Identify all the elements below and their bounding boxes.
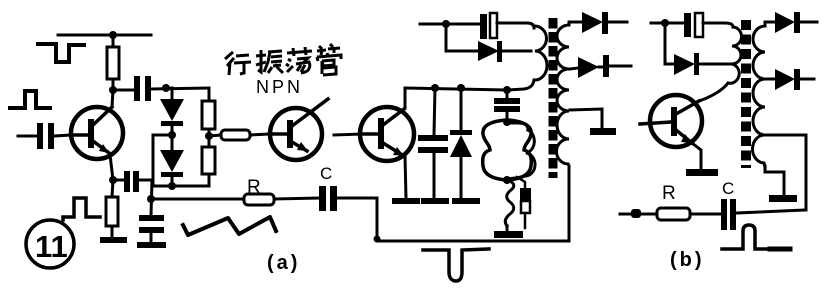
wire B+ to C8 — [446, 23, 480, 26]
diode D8 — [775, 12, 817, 33]
svg-text:(b): (b) — [670, 249, 705, 271]
transformer T2 core — [741, 20, 751, 168]
capacitor C8 (boost) — [480, 13, 497, 39]
ground T1 tap — [590, 128, 616, 135]
waveform negative retrace pulse — [423, 249, 489, 281]
transformer T1 core — [549, 18, 558, 178]
inductor L2 (linearity coil) — [505, 180, 513, 226]
resistor R1 — [107, 47, 119, 79]
wire R3 bottom lead — [208, 174, 211, 186]
svg-text:C: C — [320, 164, 332, 183]
wire T2 secondary top to D8 — [765, 22, 775, 24]
transistor Q1 — [71, 107, 123, 159]
node B+ junction — [442, 20, 450, 28]
wire (b) R input — [620, 213, 657, 216]
wire Q3 emitter to ground — [405, 156, 406, 198]
diode D3 (damper) — [450, 130, 472, 198]
char 荡 — [286, 47, 312, 73]
wire D4 to primary tap — [502, 50, 531, 53]
char 管 — [317, 44, 341, 75]
transistor Q3 (horizontal output) — [360, 107, 414, 161]
wire Q3 base lead — [334, 134, 361, 135]
diode D2 — [160, 135, 184, 186]
wire emitter resistor lead — [112, 180, 113, 197]
wire D4 branch — [446, 24, 478, 51]
wire R2 top lead — [208, 88, 211, 101]
deflection yoke L1 — [483, 120, 532, 180]
wire yoke top to lower primary — [507, 123, 528, 130]
diode D7 — [674, 53, 732, 75]
wire collector rail — [405, 80, 534, 90]
wire (b) input stub — [651, 22, 665, 25]
wire sync line vertical — [151, 180, 152, 216]
node R6 line junction — [147, 195, 155, 203]
wire junction to R6 — [151, 198, 244, 201]
capacitor C3 (emitter coupling) — [113, 171, 152, 192]
svg-text:C: C — [722, 179, 734, 198]
wire T1 tap to ground — [570, 109, 602, 128]
label 行振荡管 (drawn as strokes) — [225, 44, 341, 75]
node junction top rail / R1 — [109, 31, 117, 39]
node damper cap junction — [431, 84, 439, 92]
node between D1 and D2 — [168, 131, 176, 139]
ground D3 — [452, 198, 480, 204]
node yoke bottom — [503, 176, 511, 184]
svg-text:R: R — [662, 183, 676, 204]
wire divider tap to R4 — [209, 135, 221, 136]
wire (b) junction to C9 — [665, 22, 684, 25]
wire D3 top lead — [460, 88, 463, 130]
resistor R3 — [202, 147, 215, 174]
transistor Q2 (horizontal oscillator) — [270, 99, 328, 160]
svg-text:(a): (a) — [267, 252, 300, 274]
svg-text:NPN: NPN — [256, 77, 303, 97]
waveform positive pulse at emitter — [63, 198, 100, 220]
wire Q1 collector up — [112, 90, 113, 107]
wire T2 tap to output corner — [766, 135, 806, 208]
wire T2 secondary bottom to ground — [765, 166, 784, 195]
transformer T1 secondary — [556, 25, 569, 164]
transformer T2 secondary — [752, 26, 765, 167]
node diode network bottom — [168, 182, 176, 190]
wire C6 top lead — [434, 88, 435, 135]
char 振 — [256, 50, 283, 73]
wire C6 bottom lead — [433, 153, 436, 198]
resistor R6 — [244, 194, 274, 205]
wire T1 secondary top to D5 — [569, 22, 582, 24]
node damper diode junction — [457, 84, 465, 92]
transformer T2 primary — [699, 27, 742, 101]
diode D5 (EHT top) — [582, 12, 627, 34]
ground T2 secondary — [769, 195, 797, 202]
diode D6 — [578, 55, 631, 78]
diode D1 — [160, 88, 184, 135]
ground C4 — [137, 242, 166, 248]
ground Q4 emitter — [686, 169, 718, 176]
capacitor C9 — [684, 13, 703, 37]
char 行 — [225, 52, 251, 75]
wire Q3 collector to rail — [404, 88, 407, 108]
ground C6 — [421, 198, 449, 204]
wire collector junction to C1 — [113, 89, 134, 92]
ground Q3 emitter — [392, 198, 420, 204]
waveform sawtooth — [183, 217, 276, 235]
transformer T1 primary lower — [509, 130, 535, 179]
node D1 top junction — [162, 84, 170, 92]
wire C2 to Q1 base — [54, 135, 72, 136]
svg-text:11: 11 — [35, 229, 68, 264]
waveform positive output pulse — [722, 225, 770, 249]
node Q1 collector junction — [109, 86, 117, 94]
wire coil to ground — [506, 226, 509, 231]
wire top supply rail — [58, 34, 151, 37]
ground yoke branch — [494, 231, 523, 238]
resistor R4 (base feed) — [221, 130, 250, 140]
node yoke top — [503, 118, 511, 126]
wire R6 to C5 — [274, 198, 319, 199]
wire T2 tap to D9 — [766, 78, 775, 81]
node (b) top junction — [661, 19, 669, 27]
wire B+ feed — [420, 23, 446, 26]
wire mid-diode tap to left — [153, 135, 172, 186]
node bottom rail corner — [374, 236, 381, 243]
wire R8 to C10 — [690, 213, 721, 216]
capacitor C10 — [721, 199, 736, 230]
wire Q4 emitter to ground — [692, 143, 701, 169]
figure number 11 — [26, 220, 74, 268]
capacitor C7 (yoke coupling) — [494, 98, 520, 121]
capacitor C2 (Q1 base) — [37, 123, 54, 149]
wire R1 bottom lead — [112, 79, 115, 91]
waveform positive pulse at Q1 base — [10, 91, 50, 108]
waveform tail thick — [770, 247, 790, 252]
wire C1 to diode network top — [151, 88, 209, 89]
resistor R8 — [657, 208, 690, 220]
waveform input negative pulse top-left — [38, 44, 84, 62]
wire R5 to ground — [111, 226, 114, 238]
wire Q1 emitter down — [110, 155, 113, 180]
node Q1 emitter junction — [109, 176, 117, 184]
ground Q1 emitter — [100, 237, 127, 243]
node yoke branch junction — [503, 86, 511, 94]
capacitor C6 (retrace) — [418, 135, 448, 153]
diode D9 — [775, 69, 814, 90]
wire T1 tap to D6 — [570, 68, 578, 69]
wire R2 to R3 — [208, 129, 211, 147]
resistor R2 — [202, 101, 215, 129]
wire bottom rail — [377, 166, 569, 241]
resistor R7 (linearity damping) — [517, 177, 531, 228]
transistor Q4 (b output) — [640, 95, 702, 147]
wire C10 to corner — [736, 210, 806, 213]
wire yoke cap lead — [506, 90, 509, 98]
wire C5 to output stage — [337, 198, 377, 240]
wire R1 top lead — [112, 35, 115, 47]
capacitor C4 (to ground) — [139, 215, 164, 242]
capacitor C5 — [319, 186, 337, 211]
diode D4 (boost) — [478, 41, 502, 62]
wire R4 to Q2 base — [250, 134, 271, 135]
transformer T1 primary upper — [534, 26, 547, 80]
capacitor C1 — [134, 76, 151, 101]
wire Q1 base input — [18, 135, 37, 138]
wire C8 to primary top — [497, 23, 534, 28]
wire C9 to T2 primary top — [703, 23, 733, 27]
node divider mid junction — [205, 132, 213, 140]
wire (b) diode branch — [665, 23, 674, 64]
wire diode network bottom rail — [153, 185, 209, 188]
resistor R5 (Q1 emitter) — [106, 197, 118, 226]
